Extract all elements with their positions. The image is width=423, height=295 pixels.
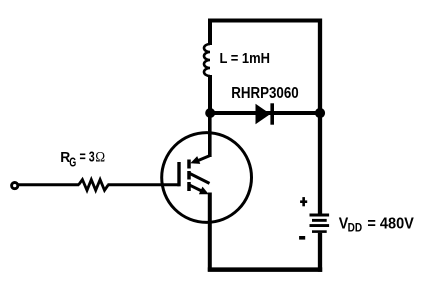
transistor Q1 drain arrowhead [190,156,200,164]
wire: gate wire terminal to resistor [17,183,79,186]
wire: drain lead from junction into transistor [208,111,212,157]
svg-text:DD: DD [348,223,363,235]
node: left diode junction [205,108,215,118]
transistor Q1 emitter arrowhead [199,187,209,195]
battery plus sign [300,200,307,203]
wire: left rail above inductor [208,19,212,46]
battery VDD plate long [310,224,330,227]
transistor Q1 channel bar segment top [187,160,191,169]
battery minus sign [299,236,305,240]
svg-text:= 480V: = 480V [367,216,414,233]
svg-text:Ω: Ω [95,150,105,166]
wire: left rail inductor to diode junction [208,75,212,115]
diode D1 triangle [256,104,271,125]
transistor Q1 gate plate [177,162,180,186]
transistor Q1 emitter diagonal [190,185,205,192]
resistor RG zigzag [79,180,109,191]
svg-text:= 3: = 3 [80,149,95,166]
node: right diode junction [315,108,325,118]
svg-text:RHRP3060: RHRP3060 [231,85,299,102]
svg-text:G: G [69,156,76,170]
svg-text:L = 1mH: L = 1mH [220,50,271,67]
wire: bottom horizontal [208,267,322,272]
wire: right rail battery - terminal to bottom [318,233,322,272]
input terminal [12,183,18,189]
battery VDD plate short [312,219,327,222]
transistor Q1 channel bar segment bottom [187,182,191,191]
wire: right rail from top to battery + terminal [318,19,322,214]
transistor Q1 channel bar segment middle [187,171,191,180]
wire: emitter lead down to bottom wire [208,193,212,272]
transistor Q1 body circle [162,133,252,223]
wire: gate wire resistor to gate plate [108,183,180,186]
diode D1 cathode bar [270,103,274,124]
inductor L [204,44,210,76]
transistor Q1 drain diagonal [194,156,210,162]
wire: diode horizontal [210,111,320,115]
battery VDD plate long top [310,214,330,217]
transistor Q1 body diagonal [190,174,210,184]
wire: top horizontal [208,19,322,23]
battery VDD plate short bottom [312,230,327,233]
